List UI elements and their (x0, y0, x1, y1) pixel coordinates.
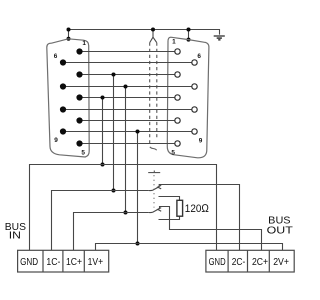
node V+ rail junction (136, 242, 140, 246)
svg-text:OUT: OUT (267, 225, 294, 236)
connector X2 pin 6 (192, 60, 197, 65)
wire pin row 2 (80, 74, 178, 76)
node pin2 junction (112, 73, 116, 77)
svg-text:9: 9 (199, 138, 203, 145)
connector X1 pin 9 (60, 128, 66, 134)
connector X2 pin 7 (192, 84, 197, 89)
svg-text:1C+: 1C+ (66, 257, 82, 268)
wire left shell stub (68, 30, 70, 39)
connector X2 pin 5 (175, 141, 180, 146)
connector X1 pin 6 (60, 59, 66, 65)
node GND rail junction (101, 163, 105, 167)
connector X1 pin 2 (76, 71, 82, 77)
node pin3 junction (101, 96, 105, 100)
wire right shell stub (188, 29, 190, 39)
connector X1 pin 7 (60, 83, 66, 89)
svg-text:2C+: 2C+ (252, 257, 268, 268)
wire C- rail (52, 191, 149, 251)
node C- rail junction (112, 189, 116, 193)
svg-text:2C-: 2C- (232, 257, 246, 268)
svg-text:1V+: 1V+ (88, 257, 104, 268)
node pin9 junction (136, 130, 140, 134)
svg-text:9: 9 (54, 137, 58, 144)
wire pin row 5 (80, 143, 178, 145)
svg-text:6: 6 (54, 53, 58, 60)
svg-text:GND: GND (20, 257, 38, 268)
wire top shield rail to earth (69, 30, 220, 35)
wire GND rail (30, 165, 217, 251)
wire pin row 3 (80, 97, 178, 99)
resistor R1 120ohm (177, 200, 183, 216)
node pin7 junction (124, 85, 128, 89)
connector X2 pin 2 (175, 72, 180, 77)
switch S1 pole1 blade (149, 187, 160, 191)
svg-text:1: 1 (82, 40, 86, 47)
wire resistor bottom lead (159, 216, 180, 219)
wire pin row 4 (80, 120, 178, 122)
wire C+ rail (74, 213, 149, 251)
wire pin row 1 (80, 51, 178, 53)
svg-text:5: 5 (171, 150, 175, 157)
connector X1 pin 1 (76, 48, 82, 54)
connector X1 pin 4 (76, 117, 82, 123)
wire pole2 output to 2C+ (160, 207, 262, 251)
wire pole1 output to 2C- (159, 185, 239, 251)
connector X1 pin 8 (60, 106, 66, 112)
switch S1 linkage dotted (153, 175, 155, 207)
switch S1 pole2 blade (149, 209, 160, 213)
terminal block BUS OUT (206, 250, 294, 272)
wire pin row 9 (63, 131, 195, 133)
svg-text:120Ω: 120Ω (185, 203, 209, 215)
node left shell junction (67, 28, 71, 32)
svg-text:1C-: 1C- (46, 257, 60, 268)
wire pin row 7 (63, 86, 195, 88)
switch S1 pole1 contact (158, 185, 162, 189)
wire GND drop from pin3 (102, 98, 104, 165)
connector X1 pin 3 (76, 94, 82, 100)
wire C- drop from pin2 (113, 75, 115, 191)
switch S1 pole2 contact (158, 208, 162, 212)
svg-text:1: 1 (172, 38, 176, 45)
connector X1 pin 5 (76, 140, 82, 146)
node shield stub junction (151, 28, 155, 32)
node right shell junction (187, 28, 191, 32)
terminal block BUS IN (18, 250, 109, 272)
connector X2 pin 8 (192, 107, 197, 112)
connector X2 outline (167, 37, 209, 158)
svg-text:IN: IN (9, 230, 21, 241)
connector X2 pin 3 (175, 95, 180, 100)
svg-text:5: 5 (81, 149, 85, 156)
wire shield dashed pair (150, 43, 157, 146)
svg-text:GND: GND (209, 257, 226, 268)
svg-text:6: 6 (197, 53, 201, 60)
wire shield pair stub (150, 29, 157, 42)
node C+ rail junction (124, 211, 128, 215)
ground (214, 36, 225, 40)
wire pin row 6 (63, 62, 195, 64)
wire C+ drop from pin7 (125, 87, 127, 213)
connector X2 pin 1 (175, 49, 180, 54)
connector X2 pin 4 (175, 118, 180, 123)
wire shield pair twist (150, 147, 157, 150)
wire resistor top lead (159, 197, 180, 201)
wire pin row 8 (63, 109, 195, 111)
connector X2 pin 9 (192, 129, 197, 134)
switch S1 actuator bar (148, 171, 160, 173)
wire V+ rail (96, 244, 283, 251)
connector X1 outline (47, 39, 89, 157)
wire V+ drop from pin9 (137, 132, 139, 244)
svg-text:2V+: 2V+ (273, 257, 289, 268)
